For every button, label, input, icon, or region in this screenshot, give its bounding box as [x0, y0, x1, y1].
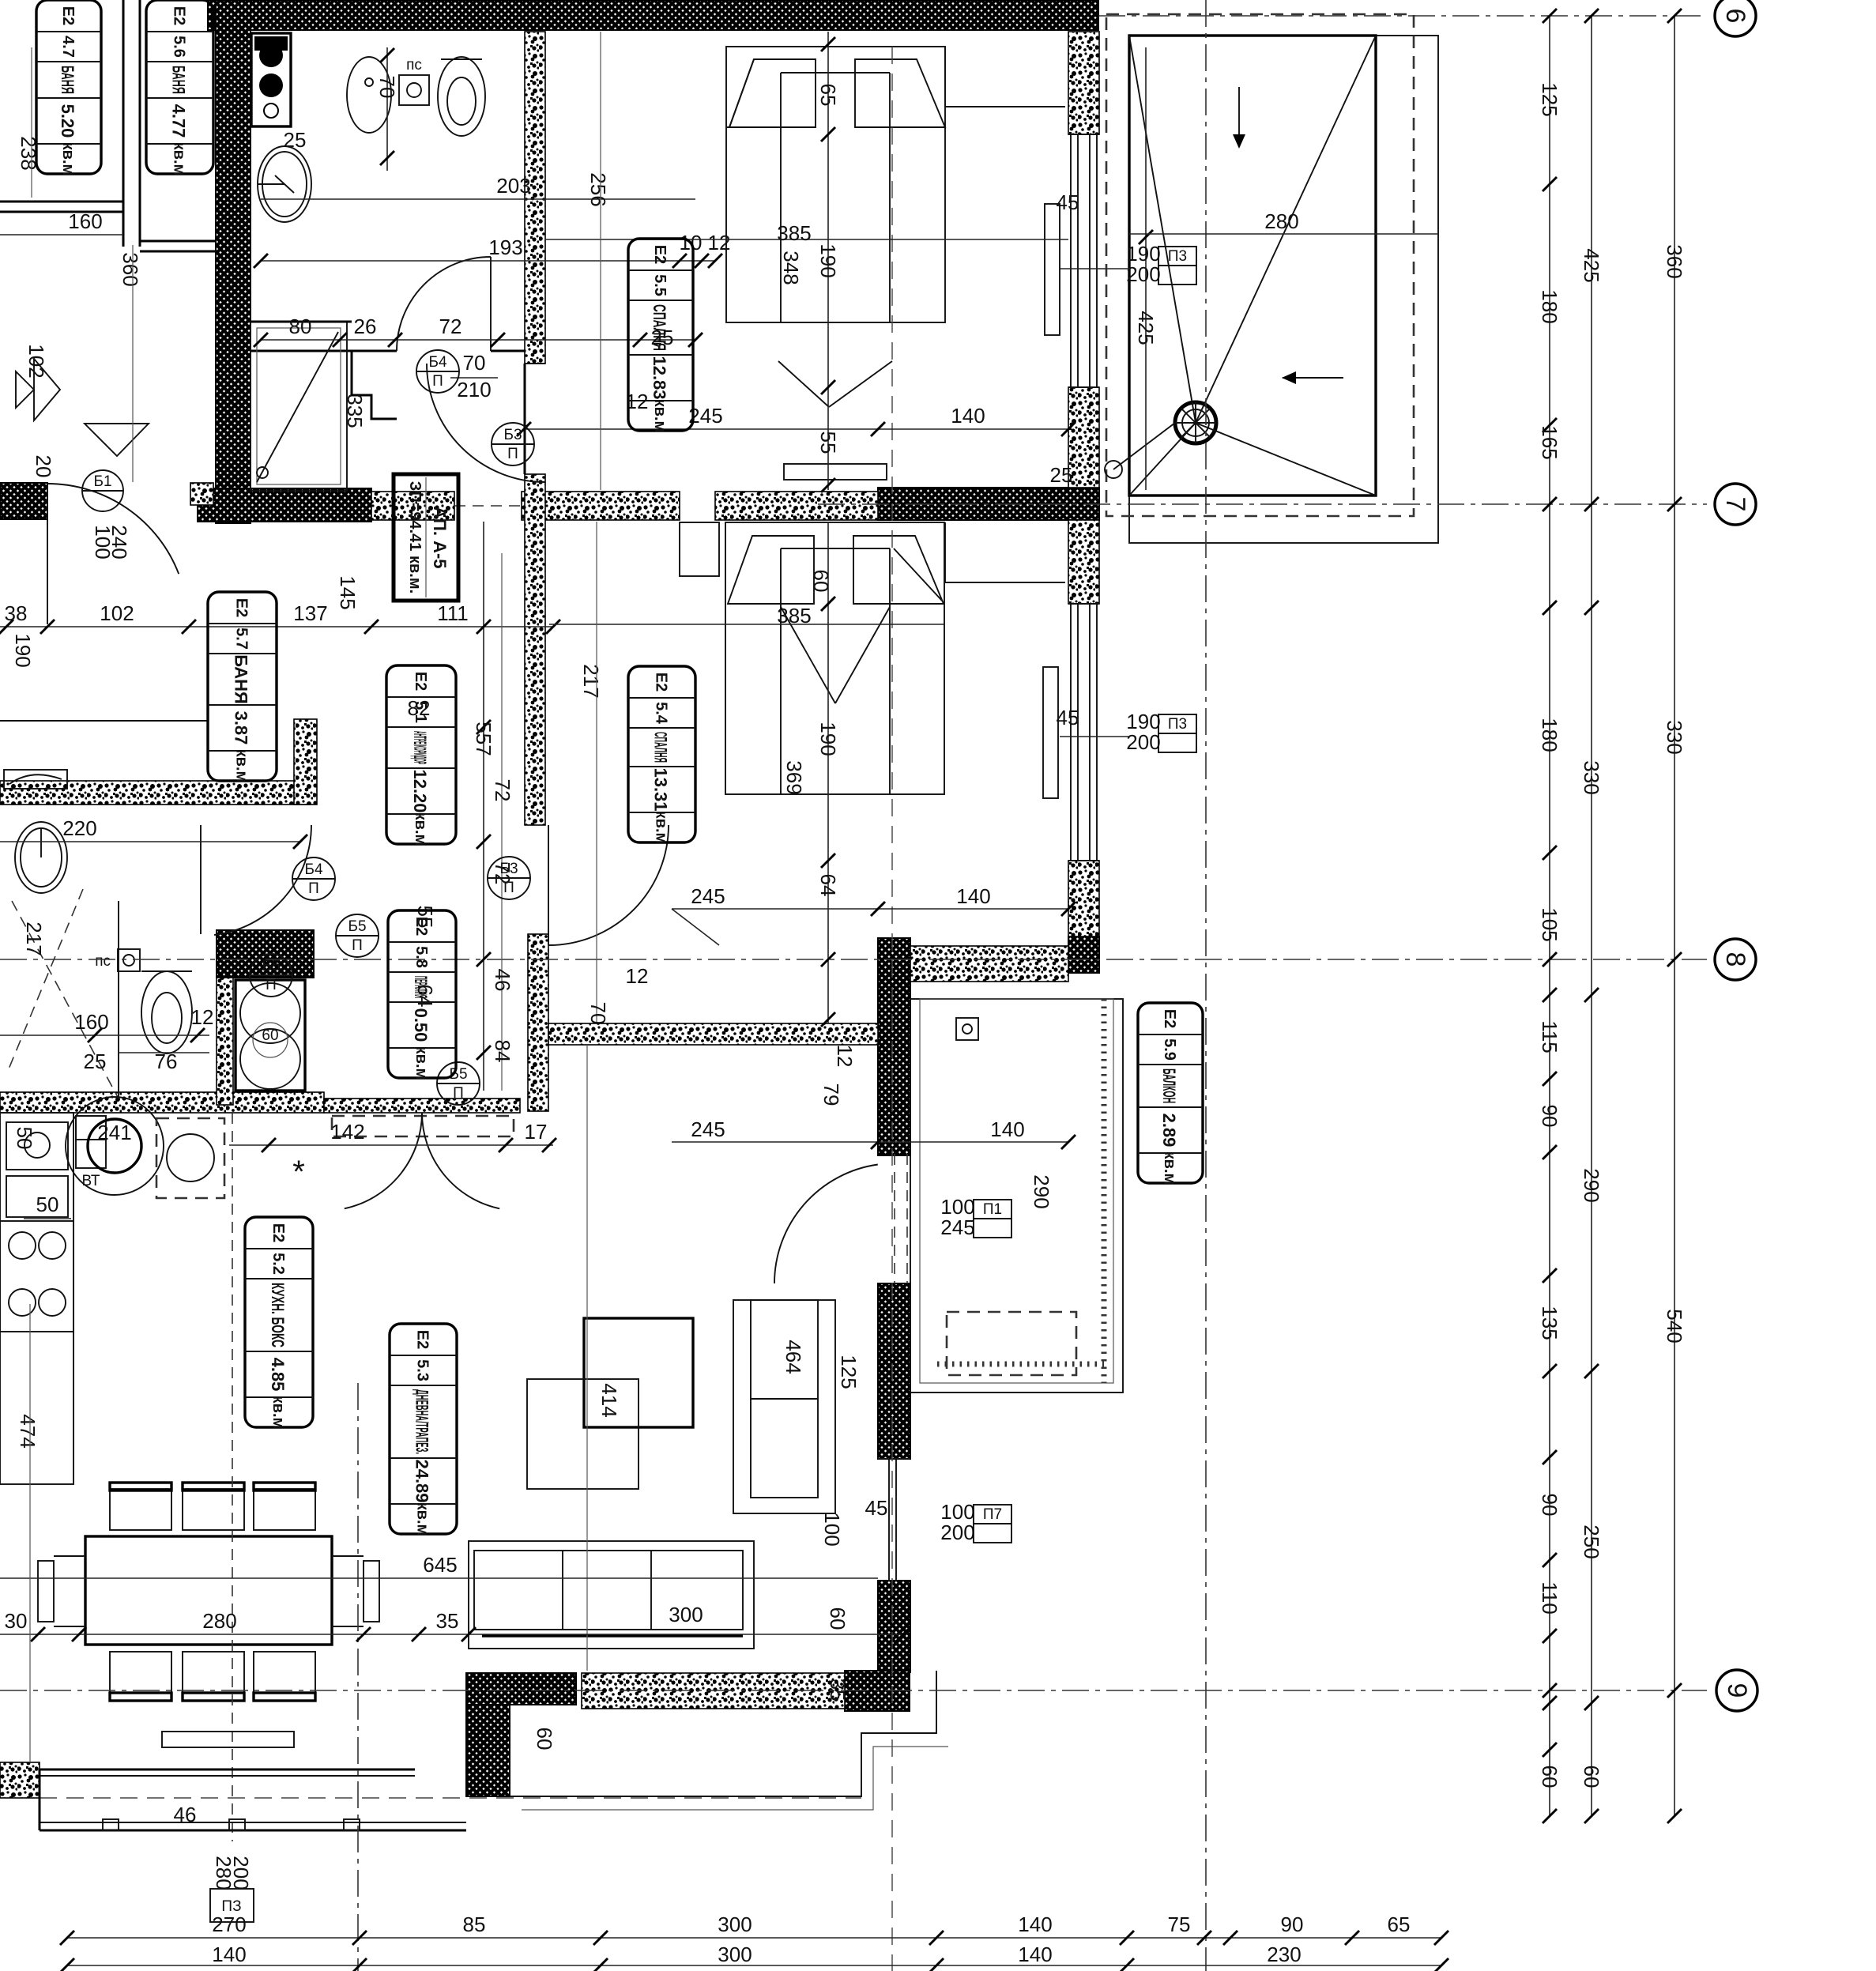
svg-text:540: 540 [1663, 1309, 1686, 1343]
svg-text:Б3: Б3 [503, 427, 522, 443]
dim 203 [261, 198, 695, 200]
svg-text:35: 35 [826, 1679, 849, 1702]
wc door arc [214, 825, 311, 935]
svg-text:180: 180 [1538, 289, 1561, 323]
svg-text:ПЗ: ПЗ [221, 1898, 241, 1915]
svg-text:5.4: 5.4 [653, 702, 670, 725]
bed1 V fold below [778, 361, 829, 407]
svg-text:П: П [352, 937, 363, 954]
svg-text:Е2: Е2 [412, 672, 429, 691]
window P7 gap frame [878, 1458, 910, 1460]
washing machine peralnya [235, 980, 305, 1091]
svg-text:Е2: Е2 [1161, 1009, 1178, 1028]
entry door dashes mid wall gap [454, 505, 522, 507]
bathroom1 niche step [352, 351, 397, 419]
living vertical guide line [586, 1045, 588, 1671]
roof drain fan [1175, 402, 1216, 443]
svg-text:4.85: 4.85 [268, 1358, 288, 1392]
svg-text:145: 145 [336, 575, 360, 609]
balcony1 inner rect [1129, 36, 1376, 496]
terrace dashed line [40, 1797, 861, 1799]
bath2/wc speckled wall horizontal [0, 781, 310, 805]
svg-text:8: 8 [1720, 952, 1750, 967]
svg-text:360: 360 [119, 252, 142, 286]
svg-text:5.5: 5.5 [651, 274, 669, 296]
svg-text:Б1: Б1 [93, 473, 111, 490]
dashed appliance square [156, 1118, 224, 1198]
dim 193 10 12 [261, 260, 715, 262]
svg-text:385: 385 [777, 604, 811, 627]
valve circle Б4 [292, 857, 335, 900]
shower tray [251, 322, 347, 491]
svg-text:П: П [507, 446, 518, 462]
living bottom L-wall horizontal leg [466, 1673, 576, 1705]
dim 557 corridor [483, 522, 484, 1091]
room label peralnya [388, 910, 456, 1078]
terrace posts [103, 1819, 119, 1830]
svg-text:Е2: Е2 [269, 1223, 287, 1242]
svg-text:65: 65 [816, 84, 840, 107]
svg-text:180: 180 [1538, 718, 1561, 752]
dim 72 72 46 84 chain [501, 553, 503, 1091]
living bottom L-wall vertical leg [466, 1705, 510, 1796]
dim 645 living [0, 1577, 878, 1579]
svg-text:38: 38 [5, 601, 28, 625]
svg-text:Е2: Е2 [59, 6, 77, 25]
bed 2 blanket band [780, 548, 782, 794]
balcony door dashed opening [894, 1154, 895, 1283]
svg-text:290: 290 [1030, 1174, 1053, 1208]
svg-text:474: 474 [16, 1414, 40, 1448]
dim 160 12 wc [0, 1034, 209, 1036]
svg-text:кв.м: кв.м [653, 811, 670, 845]
svg-text:200: 200 [940, 1521, 974, 1544]
svg-text:кв.м: кв.м [171, 142, 188, 176]
svg-text:45: 45 [1057, 706, 1079, 729]
svg-text:45: 45 [1057, 190, 1079, 214]
dim 76 wc [119, 1052, 209, 1053]
bed 1 outline [726, 47, 945, 322]
svg-text:464: 464 [782, 1340, 805, 1374]
room label kuhn boks [245, 1217, 313, 1427]
svg-text:3.87: 3.87 [232, 711, 251, 745]
svg-text:АНТРЕ/КОРИДОР: АНТРЕ/КОРИДОР [410, 731, 430, 764]
svg-text:Б4: Б4 [428, 354, 446, 371]
svg-text:46: 46 [491, 969, 514, 992]
svg-text:Б5: Б5 [262, 958, 280, 974]
svg-text:кв.м: кв.м [412, 1046, 430, 1080]
svg-text:245: 245 [940, 1215, 974, 1239]
svg-text:6: 6 [1720, 9, 1750, 24]
svg-text:пс: пс [95, 953, 111, 970]
valve circle B5 lower [437, 1062, 480, 1105]
svg-text:5.2: 5.2 [269, 1253, 287, 1275]
peralnya speckled strip [217, 978, 233, 1105]
hall door leaves dashed [332, 1116, 514, 1136]
window W1 bedroom1 (right wall) [1070, 134, 1072, 387]
svg-text:102: 102 [24, 344, 48, 378]
svg-text:414: 414 [597, 1383, 621, 1417]
lower window sill lines [910, 1392, 1123, 1393]
svg-text:45: 45 [865, 1496, 888, 1520]
room label dnevna [390, 1324, 457, 1534]
svg-text:П1: П1 [983, 1201, 1002, 1218]
terrace left vertical [39, 1769, 41, 1830]
svg-text:7: 7 [1720, 497, 1750, 512]
balcony2 door arc living [774, 1165, 878, 1284]
svg-text:ВТ: ВТ [81, 1173, 100, 1189]
bedroom1 horizontal dim y303 [545, 239, 1068, 240]
svg-text:Е2: Е2 [171, 6, 188, 25]
svg-text:55: 55 [816, 432, 840, 454]
dim 245 140 y1445 [672, 1141, 1068, 1143]
grid line 7 [818, 503, 1707, 505]
svg-text:СПАЛНЯ: СПАЛНЯ [651, 732, 671, 763]
chair top 3 [254, 1489, 315, 1530]
balcony1 dashed roof [1106, 14, 1414, 516]
svg-text:200: 200 [229, 1856, 253, 1890]
svg-text:5.20: 5.20 [58, 104, 77, 138]
svg-text:300: 300 [718, 1943, 752, 1966]
svg-text:4.77: 4.77 [169, 104, 189, 138]
svg-text:ПЕРАЛНЯ: ПЕРАЛНЯ [411, 976, 431, 998]
speckled mid wall part 3 [715, 492, 878, 520]
bedroom1 vertical dim chain x1048 [827, 32, 829, 490]
svg-text:4.7: 4.7 [59, 36, 77, 58]
small hatched stub left edge y620 [0, 483, 47, 519]
corridor right speckled wall mid [525, 474, 545, 825]
bottom terrace speckle left block [0, 1762, 40, 1798]
svg-text:76: 76 [155, 1050, 178, 1073]
svg-text:П7: П7 [983, 1506, 1002, 1523]
chair bottom 3 [254, 1652, 315, 1693]
svg-text:СПАЛНЯ: СПАЛНЯ [650, 304, 669, 351]
svg-text:115: 115 [1538, 1020, 1561, 1053]
drain small circle [1105, 461, 1122, 478]
bottom dim chain row2 [67, 1965, 1441, 1966]
svg-text:300: 300 [718, 1913, 752, 1936]
svg-text:12.83: 12.83 [650, 356, 669, 399]
living bottom speckled band [582, 1673, 845, 1709]
bath2 door arc [47, 484, 179, 574]
living room right hatched wall lower a [878, 1283, 910, 1459]
outer hatched wall: left vertical [216, 0, 251, 523]
bidet [347, 57, 391, 133]
svg-text:60: 60 [809, 570, 833, 593]
dining table [85, 1536, 332, 1645]
svg-text:280: 280 [1264, 209, 1298, 233]
balcony2 railing beaded [1102, 999, 1107, 1383]
svg-text:84: 84 [491, 1040, 514, 1063]
svg-text:335: 335 [343, 394, 367, 428]
dim 30 280 35 300 [0, 1634, 903, 1635]
svg-text:АП. А-5: АП. А-5 [430, 506, 450, 568]
dim line 38 102 137 111 [0, 626, 553, 627]
svg-text:385: 385 [777, 221, 811, 245]
balcony2 slab [910, 999, 1123, 1393]
svg-text:330: 330 [1580, 760, 1603, 794]
speckled mid wall left part [371, 492, 454, 520]
top-left double wall between banya labels [122, 0, 125, 247]
svg-text:*: * [292, 1155, 305, 1189]
svg-text:Б3: Б3 [499, 861, 518, 877]
svg-text:100: 100 [820, 1512, 844, 1546]
roof diagonals [1129, 36, 1196, 423]
outer hatched wall: top band [208, 0, 1098, 30]
svg-text:193: 193 [488, 236, 522, 259]
terrace upper thin rect [162, 1732, 294, 1747]
svg-text:90: 90 [1538, 1494, 1561, 1517]
svg-text:240: 240 [107, 525, 131, 559]
step outline bottom right of living [510, 1671, 936, 1796]
svg-text:102: 102 [100, 601, 134, 625]
bed 1 side line [726, 126, 781, 128]
right facade wall speckle seg1 [1068, 32, 1099, 134]
svg-text:79: 79 [819, 1083, 843, 1106]
svg-text:70: 70 [463, 351, 486, 375]
balcony2 square symbol [956, 1018, 978, 1040]
sink oval bathroom1 [258, 146, 311, 222]
svg-text:20: 20 [32, 455, 55, 478]
svg-text:60: 60 [262, 1027, 278, 1044]
room label spalnya 13.31 [628, 666, 695, 842]
chair top 2 [183, 1489, 244, 1530]
room label antre/koridor [386, 665, 456, 844]
svg-text:348: 348 [779, 251, 803, 285]
svg-text:64: 64 [816, 874, 840, 897]
svg-text:5.6: 5.6 [171, 36, 188, 58]
terrace railing top line [40, 1769, 415, 1771]
grid bubble 7 [1715, 484, 1756, 525]
living room right hatched wall lower b [878, 1581, 910, 1672]
svg-text:111: 111 [437, 601, 469, 625]
room label banya 3.87 [208, 592, 277, 781]
svg-text:П: П [453, 1085, 464, 1102]
svg-text:105: 105 [1538, 907, 1561, 941]
bed 2 pillows [728, 536, 814, 604]
svg-text:65: 65 [1388, 1913, 1411, 1936]
valve circle Б3 [488, 857, 530, 899]
svg-text:26: 26 [354, 315, 377, 338]
coffee table 2 [527, 1379, 639, 1489]
svg-text:645: 645 [423, 1553, 457, 1577]
chair top 1 [110, 1489, 171, 1530]
svg-text:5.7: 5.7 [233, 627, 251, 650]
svg-text:210: 210 [457, 378, 491, 401]
valve circle Б4 [416, 350, 459, 393]
svg-text:250: 250 [1580, 1524, 1603, 1558]
svg-text:360: 360 [1663, 244, 1686, 278]
right facade wall speckle seg2 [1068, 387, 1099, 488]
bed 2 outline [725, 522, 944, 794]
bedroom2 horizontal dim y790 [549, 624, 944, 625]
svg-text:БАНЯ: БАНЯ [232, 654, 251, 704]
svg-text:200: 200 [1126, 730, 1160, 754]
svg-text:70: 70 [375, 76, 399, 99]
svg-text:П3: П3 [1168, 248, 1187, 265]
vertical dashdot x453 [357, 1383, 359, 1971]
apartment label АП.А-5 [394, 474, 458, 601]
toilet bathroom1 [438, 57, 485, 136]
dim 160 top left [0, 234, 123, 236]
svg-text:110: 110 [1538, 1581, 1561, 1614]
svg-text:125: 125 [837, 1355, 861, 1389]
right dim chain 3 [1674, 16, 1675, 1816]
svg-text:160: 160 [74, 1010, 108, 1034]
svg-text:50: 50 [13, 1127, 36, 1150]
corridor/bed1 wall lower part [524, 364, 526, 474]
grid line 6 [1098, 15, 1707, 17]
hatched block kitchen/wc corner [217, 930, 314, 978]
bath2 shelf sink [4, 770, 67, 789]
room label balkon [1138, 1003, 1203, 1183]
svg-text:П: П [432, 373, 443, 390]
svg-text:60: 60 [533, 1728, 556, 1751]
svg-text:12: 12 [708, 231, 731, 254]
corridor right speckled wall upper [525, 32, 545, 364]
room label banya 4.77 [146, 0, 213, 174]
svg-text:270: 270 [212, 1913, 246, 1936]
bath2 mid line [0, 720, 207, 722]
hatched wall mid-right (bedroom separation) [878, 488, 1099, 520]
grid bubble 9 [1716, 1670, 1757, 1711]
vertical dashed x1129 full [891, 47, 893, 1971]
sofa horizontal [469, 1541, 754, 1649]
svg-text:140: 140 [990, 1117, 1024, 1141]
svg-text:9: 9 [1722, 1683, 1752, 1698]
bedroom2 vertical dim chain [827, 522, 829, 1023]
radiator bedroom2 [1043, 667, 1058, 798]
svg-text:140: 140 [956, 884, 990, 908]
dining table leaves [38, 1561, 54, 1622]
speckled band above balcony2 [910, 946, 1068, 982]
vertical dashdot x1526 [1205, 0, 1207, 1971]
nightstand 2 left [680, 522, 719, 576]
hall double door to living: leaf1 [345, 1113, 422, 1208]
svg-text:557: 557 [472, 722, 495, 756]
svg-text:БАНЯ: БАНЯ [58, 66, 77, 94]
svg-text:142: 142 [330, 1120, 364, 1144]
terrace railing bottom line [40, 1822, 466, 1823]
boiler box [251, 33, 291, 126]
svg-text:кв.м: кв.м [1161, 1151, 1178, 1185]
bed 1 right table [945, 106, 1065, 107]
dim 280 balcony [1129, 233, 1438, 235]
svg-text:220: 220 [62, 816, 96, 840]
right dim chain 1 [1549, 16, 1550, 1816]
bedroom1 door arc (from corridor) [427, 364, 545, 482]
grid bubble 8 [1715, 939, 1756, 980]
svg-text:пс: пс [406, 57, 422, 73]
bath2 speckled wall vertical [294, 719, 317, 805]
left wc oval tub [15, 822, 67, 893]
svg-text:290: 290 [1580, 1168, 1603, 1202]
valve circle Б5 [250, 954, 292, 997]
hatched wall mid-left under shower [198, 488, 371, 522]
dim 142 17 kitchen [229, 1144, 553, 1146]
dim 80 26 72 25 line [261, 339, 695, 341]
svg-text:Е2: Е2 [414, 1330, 431, 1349]
svg-text:Е2: Е2 [412, 917, 430, 936]
svg-text:60: 60 [1580, 1766, 1603, 1788]
svg-text:140: 140 [951, 404, 985, 428]
svg-text:П: П [503, 880, 514, 896]
svg-text:25: 25 [84, 1050, 107, 1073]
valve circle Б3 [492, 423, 534, 465]
svg-text:75: 75 [1168, 1913, 1191, 1936]
pc box bathroom1 [399, 75, 429, 105]
svg-text:ДНЕВНА/ТРАПЕЗ.: ДНЕВНА/ТРАПЕЗ. [412, 1389, 432, 1454]
coffee table 1 [584, 1318, 693, 1427]
roof slope arrow down [1238, 87, 1240, 147]
dim 220 bath2 [0, 841, 300, 842]
svg-text:5.9: 5.9 [1161, 1038, 1178, 1061]
bed 1 pillows [729, 59, 816, 127]
svg-text:2.89: 2.89 [1159, 1114, 1179, 1148]
svg-text:35: 35 [436, 1609, 459, 1633]
svg-text:17: 17 [525, 1120, 548, 1144]
grid line 8 [0, 959, 1707, 960]
svg-text:125: 125 [1538, 82, 1561, 116]
svg-text:Е2: Е2 [653, 673, 670, 692]
svg-text:300: 300 [669, 1603, 703, 1626]
dim 70 vert bathroom [386, 47, 388, 171]
svg-text:60: 60 [1538, 1766, 1561, 1788]
right facade wall speckle seg3 [1068, 520, 1099, 604]
svg-text:кв.м: кв.м [412, 812, 429, 846]
stove 4 burners [0, 1221, 73, 1332]
svg-text:425: 425 [1580, 248, 1603, 282]
triangle down symbol [85, 424, 149, 456]
balcony2 dashed furniture [947, 1312, 1076, 1375]
svg-text:140: 140 [212, 1943, 246, 1966]
svg-text:5.8: 5.8 [412, 946, 430, 968]
svg-text:БАНЯ: БАНЯ [169, 66, 189, 94]
svg-text:230: 230 [1267, 1943, 1301, 1966]
small speckle block left edge [190, 483, 213, 505]
living room right hatched wall upper [878, 938, 910, 1155]
bedroom1 shelf above mid wall [784, 464, 887, 480]
svg-text:13.31: 13.31 [651, 767, 671, 811]
svg-text:кв.м: кв.м [414, 1502, 431, 1536]
svg-text:12: 12 [626, 964, 649, 988]
svg-text:12: 12 [191, 1005, 214, 1029]
svg-text:30: 30 [5, 1609, 28, 1633]
bottom dim chain row1 [67, 1937, 1441, 1939]
svg-text:П: П [308, 880, 319, 897]
bed 2 fold top right [894, 548, 942, 601]
svg-text:КУХН. БОКС: КУХН. БОКС [268, 1283, 288, 1347]
svg-text:330: 330 [1663, 720, 1686, 754]
svg-text:72: 72 [491, 779, 514, 802]
bathroom1 bottom wall [251, 350, 397, 352]
svg-text:217: 217 [22, 921, 46, 955]
svg-text:190: 190 [816, 722, 840, 756]
svg-text:ЗП=94.41 кв.м.: ЗП=94.41 кв.м. [406, 481, 424, 594]
svg-text:Е2: Е2 [233, 598, 251, 617]
svg-text:25: 25 [284, 128, 307, 152]
bed 1 blanket band [780, 73, 782, 322]
svg-text:85: 85 [463, 1913, 486, 1936]
svg-text:140: 140 [1018, 1913, 1052, 1936]
bed 2 right table [945, 582, 1065, 583]
svg-text:160: 160 [68, 209, 102, 233]
svg-text:12.20: 12.20 [410, 769, 430, 812]
svg-text:кв.м: кв.м [651, 399, 669, 433]
svg-text:425: 425 [1134, 311, 1158, 345]
dim 245 140 y543 [524, 428, 1068, 430]
svg-text:137: 137 [293, 601, 327, 625]
